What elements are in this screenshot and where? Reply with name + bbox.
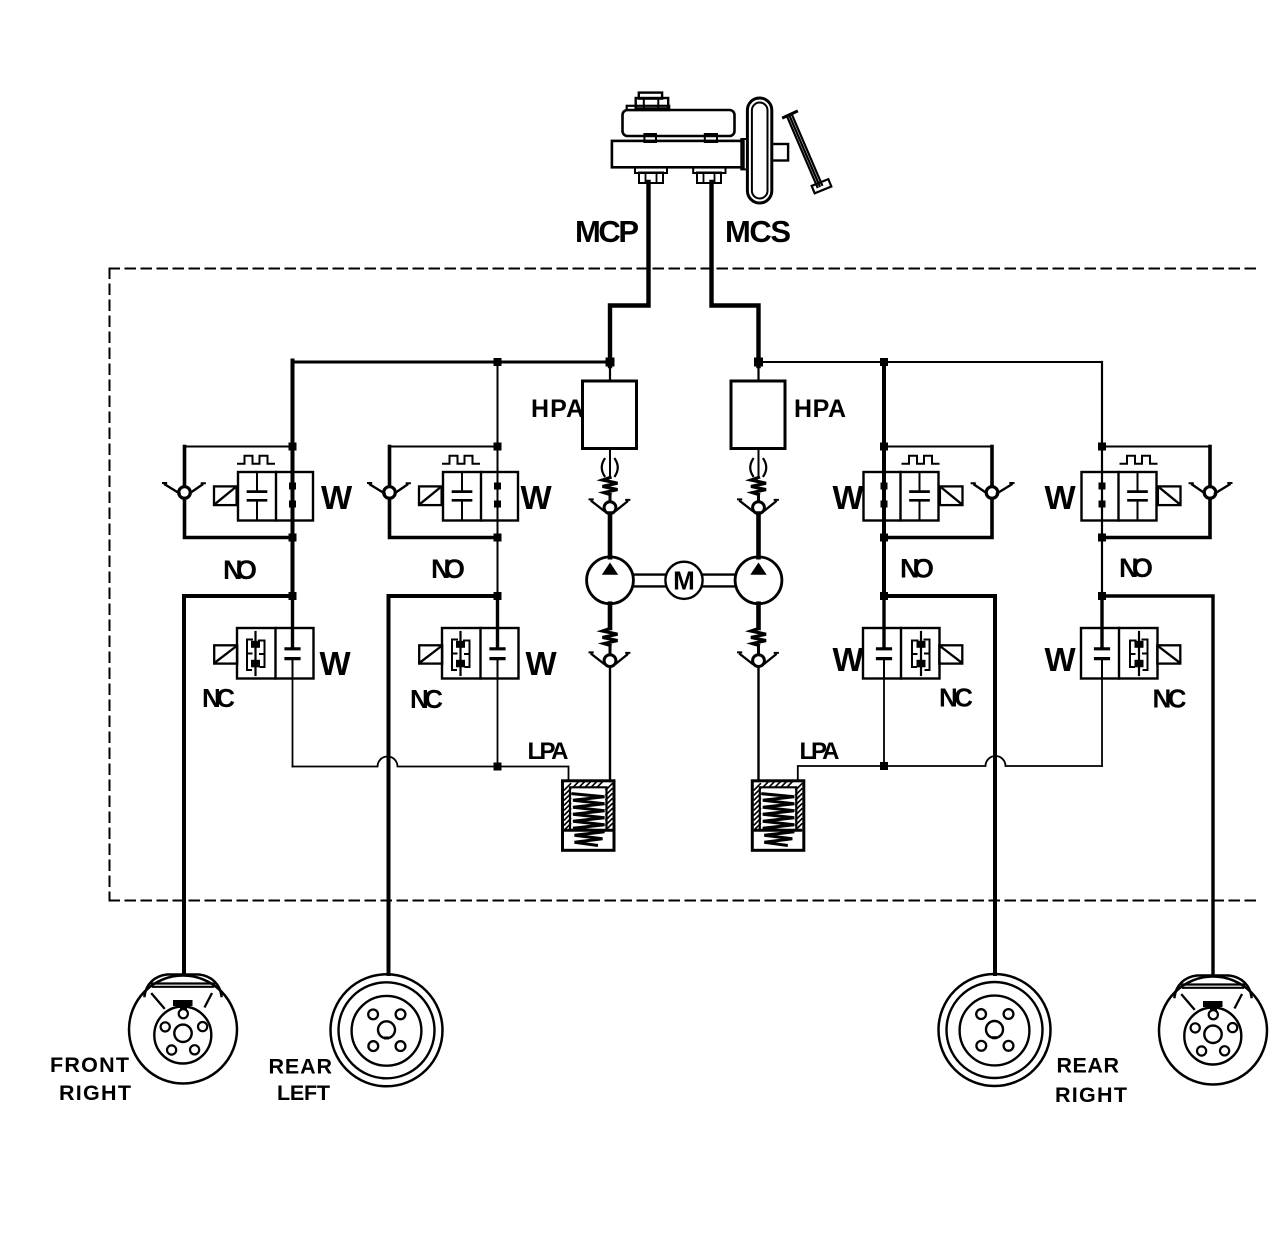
wheel FRONT LEFT disc [1159,976,1267,1085]
wire left manifold [293,361,611,364]
svg-text:FRONT: FRONT [50,1053,129,1077]
svg-text:W: W [833,479,865,516]
svg-text:NC: NC [410,684,443,714]
accumulator LPA left [563,781,615,851]
svg-text:M: M [673,566,695,596]
wheel REAR RIGHT drum [939,974,1051,1086]
node junction channel2 supply [494,358,502,366]
svg-text:NC: NC [202,683,235,713]
svg-text:LEFT: LEFT [277,1081,330,1105]
wire NC3 return drop [883,679,885,767]
motor M [665,562,702,599]
pump column left (HPA, orifice, damper, check valves, pump) [583,364,637,781]
motor shaft couplings [633,575,734,587]
MCP outlet port [635,167,667,173]
node junction right return [880,762,888,770]
svg-text:NC: NC [1153,684,1187,714]
valve NO4 inlet solenoid [1082,443,1232,542]
wire channel3 wheel line REAR RIGHT [884,596,995,974]
accumulator LPA right [752,781,804,851]
svg-text:W: W [1045,479,1077,516]
svg-text:LPA: LPA [528,738,569,765]
wheel FRONT RIGHT disc [129,975,237,1084]
valve NO2 inlet solenoid [368,443,518,542]
svg-text:NO: NO [223,555,257,585]
valve NC2 outlet solenoid [419,592,518,679]
MCS outlet port [693,167,725,173]
brake pedal arm [787,115,822,187]
svg-text:NO: NO [1119,553,1153,583]
svg-text:LPA: LPA [800,738,840,765]
master cylinder body [612,141,744,167]
vacuum booster [747,98,771,203]
svg-text:REAR: REAR [269,1055,333,1079]
wire NC2 return drop [497,679,499,767]
svg-text:HPA: HPA [531,395,584,423]
wire channel1 wheel line FRONT RIGHT [184,596,293,974]
wire left return to LPA with crossover hop [293,757,569,782]
svg-text:NO: NO [431,554,465,584]
svg-text:W: W [320,645,352,682]
reservoir legs [644,134,656,142]
valve NC1 outlet solenoid [214,592,313,679]
svg-text:W: W [526,645,558,682]
svg-text:MCS: MCS [725,214,791,249]
valve NO1 inlet solenoid [163,443,313,542]
wire channel1 supply vertical [291,361,295,597]
brake pedal pad [812,179,832,193]
wire NC4 return drop [1101,679,1103,767]
svg-text:MCP: MCP [575,214,639,249]
wire channel2 supply vertical [497,362,499,596]
booster coupling [741,139,747,169]
wire channel2 wheel line REAR LEFT [389,596,498,974]
wire right return to LPA with crossover hop [798,756,1102,781]
pump column right (HPA, orifice, damper, check valves, pump) [731,364,785,781]
wire channel3 supply vertical [882,361,886,597]
wheel REAR LEFT drum [331,974,443,1086]
wire right manifold [759,361,1103,363]
wire NC1 return drop [292,679,294,767]
wire channel4 wheel line FRONT LEFT [1102,596,1213,973]
node junction left return [494,763,502,771]
svg-text:W: W [521,479,553,516]
svg-text:W: W [321,479,353,516]
booster pushrod [772,144,788,161]
node junction MCS-HPA [754,358,763,367]
svg-text:NC: NC [939,683,973,713]
valve NO3 inlet solenoid [864,443,1014,542]
svg-text:W: W [833,641,865,678]
wire channel4 supply vertical [1101,362,1103,596]
valve NC3 outlet solenoid [863,592,962,679]
node junction channel3 supply [880,358,888,366]
wire MCS secondary line [712,182,759,366]
svg-text:NO: NO [900,554,934,584]
master cylinder reservoir [612,93,831,203]
svg-text:RIGHT: RIGHT [1055,1083,1127,1107]
svg-text:REAR: REAR [1057,1054,1120,1078]
valve NC4 outlet solenoid [1081,592,1180,679]
wire MCP primary line [610,182,649,366]
svg-text:W: W [1045,641,1077,678]
node junction MCP-HPA [606,358,615,367]
svg-text:HPA: HPA [794,395,846,423]
svg-text:RIGHT: RIGHT [59,1081,131,1105]
reservoir cap [639,93,662,99]
HCU dashed enclosure [110,269,1258,901]
